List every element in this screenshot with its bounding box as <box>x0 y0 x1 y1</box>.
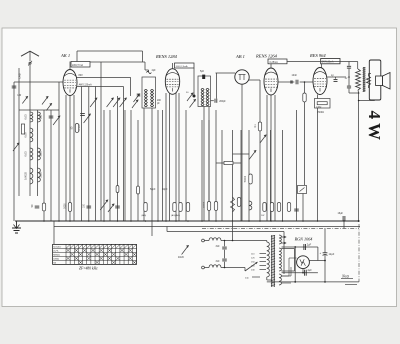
wire <box>294 247 296 282</box>
wire <box>208 107 210 222</box>
trimmer <box>100 200 108 210</box>
junction on bus <box>175 220 177 222</box>
resistor osc <box>75 124 78 133</box>
svg-text:2350: 2350 <box>40 172 43 178</box>
wire HV bottom <box>282 270 295 272</box>
variable capacitor arrow osc <box>84 114 91 123</box>
wire <box>13 82 15 221</box>
wire RENS1284 pin <box>165 93 167 221</box>
svg-text:200V,2,5mA: 200V,2,5mA <box>176 65 188 68</box>
coil L3 <box>30 148 33 160</box>
junction on bus <box>259 220 261 222</box>
wire <box>53 221 55 227</box>
junction on bus <box>165 220 167 222</box>
coil IF1 secondary b <box>151 98 154 106</box>
svg-text:2µF: 2µF <box>307 244 312 247</box>
junction <box>224 267 226 269</box>
junction <box>324 281 326 283</box>
junction <box>324 260 326 262</box>
svg-text:4pF: 4pF <box>152 69 157 72</box>
heater tap arrow b <box>282 242 286 244</box>
bottom rail <box>267 281 359 283</box>
wire <box>203 107 205 222</box>
svg-text:1600: 1600 <box>40 151 43 157</box>
wire rect fil b <box>282 282 292 284</box>
wire vertical <box>103 110 105 221</box>
capacitor blob <box>291 80 292 83</box>
table header hatch <box>66 244 137 248</box>
wire tube top <box>172 63 174 69</box>
capacitor 3nF <box>222 247 227 249</box>
wire <box>145 69 149 71</box>
capacitor 12uF electrolytic <box>323 253 328 256</box>
wire <box>368 86 370 89</box>
wire RENS1264 plate out <box>278 81 294 83</box>
arrow pot <box>260 135 266 143</box>
wire plate feed rail <box>90 61 145 63</box>
wire <box>18 68 20 110</box>
capacitor 200pF <box>215 99 217 103</box>
variable capacitor arrow <box>53 116 60 125</box>
svg-text:RENS 1264: RENS 1264 <box>255 54 278 59</box>
selector arm <box>245 262 258 271</box>
switch arrow <box>113 98 120 107</box>
wire RENS1284 pin <box>178 93 180 221</box>
wire vertical <box>117 96 119 221</box>
wire <box>270 64 272 68</box>
heater line <box>54 226 360 228</box>
wire RENS1264 pin <box>266 95 268 221</box>
wire <box>317 247 319 261</box>
wire RENS1284 pin <box>169 93 171 221</box>
junction on bus <box>270 220 272 222</box>
wire <box>130 77 132 96</box>
coil IF2 primary b <box>206 88 209 96</box>
junction on bus <box>117 220 119 222</box>
resistor <box>270 203 273 212</box>
svg-text:Zu/TL: Zu/TL <box>53 251 59 253</box>
wire <box>88 87 90 89</box>
wire <box>374 99 376 102</box>
wire vertical <box>124 110 126 221</box>
wire AK1 pin <box>65 95 67 221</box>
svg-text:RGN 1064: RGN 1064 <box>294 237 313 242</box>
resistor <box>186 203 189 212</box>
resistor padding <box>21 124 24 134</box>
junction on bus <box>282 220 284 222</box>
junction on bus <box>187 220 189 222</box>
tube AK1 envelope <box>63 70 77 96</box>
wire <box>282 275 290 277</box>
wire vertical <box>185 110 187 221</box>
coil mains choke top <box>209 238 221 241</box>
capacitor tuning <box>49 116 54 118</box>
wire <box>142 51 144 62</box>
coil PT primary <box>267 242 270 277</box>
capacitor Lz bottom <box>347 86 351 88</box>
junction blob <box>193 95 196 98</box>
capacitor 2uF <box>304 244 306 250</box>
resistor 5000 <box>68 203 71 212</box>
svg-text:12µF: 12µF <box>329 253 335 256</box>
junction on bus <box>58 220 60 222</box>
junction <box>232 240 234 242</box>
selector tap 110 <box>260 253 267 255</box>
resistor <box>42 203 45 211</box>
wire <box>259 131 261 221</box>
table X marks <box>66 249 136 264</box>
switch arrow antenna <box>13 143 19 151</box>
wire vertical <box>221 130 223 221</box>
junction <box>224 240 226 242</box>
coil L7 <box>38 168 41 182</box>
wire <box>324 255 326 282</box>
resistor grid leak <box>303 93 306 102</box>
junction on bus <box>215 220 217 222</box>
wire <box>232 221 234 241</box>
grid squiggle <box>147 71 152 73</box>
svg-text:50000: 50000 <box>245 175 247 182</box>
wire <box>18 110 20 196</box>
cathode box RES964 <box>315 99 331 109</box>
wire <box>321 64 323 68</box>
wire field coil down <box>358 93 360 221</box>
wire HV plate rail <box>282 246 318 248</box>
tube RES 964 envelope <box>313 68 327 95</box>
wire <box>224 262 226 268</box>
tube RGN1064 envelope <box>297 256 310 269</box>
svg-text:16-486: 16-486 <box>79 124 81 132</box>
svg-text:LAB: LAB <box>18 73 22 78</box>
svg-text:3nF: 3nF <box>216 245 221 248</box>
svg-text:40pF: 40pF <box>162 188 168 191</box>
wire <box>29 110 31 196</box>
wire vertical <box>296 110 298 221</box>
selector tap 240 <box>260 269 267 271</box>
capacitor 100pF <box>87 206 92 208</box>
svg-text:LW: LW <box>18 94 22 97</box>
svg-text:200pF: 200pF <box>219 101 226 103</box>
wire <box>221 240 267 242</box>
wire HV top <box>282 248 295 250</box>
wire <box>76 51 78 62</box>
wire AVC down <box>259 80 261 122</box>
svg-text:0,0025: 0,0025 <box>24 171 28 179</box>
svg-text:ZF=480 kHz: ZF=480 kHz <box>79 267 98 271</box>
wire plate RENS1284 down <box>193 68 195 95</box>
wire to speaker <box>369 73 372 75</box>
wire <box>343 221 345 228</box>
trimmer IF1a <box>133 94 139 102</box>
trimmer 40/20 <box>182 246 189 255</box>
coil IF1 secondary <box>144 98 147 106</box>
wire AK1 top <box>69 62 71 70</box>
wire <box>266 241 268 243</box>
ground bus <box>15 220 359 222</box>
ground symbol <box>12 221 21 233</box>
coil oval <box>116 186 119 193</box>
wire <box>166 227 168 232</box>
switch arrow W <box>42 97 48 105</box>
wire vertical <box>282 130 284 221</box>
switch arrow <box>90 98 97 107</box>
wire <box>224 250 226 258</box>
svg-text:RES 964: RES 964 <box>309 53 326 58</box>
capacitor <box>115 206 120 208</box>
switch arrow <box>120 98 127 107</box>
resistor oval <box>237 198 240 207</box>
capacitor 5pF <box>202 75 205 79</box>
wire B+ rail <box>287 61 358 63</box>
wire vertical <box>201 120 203 221</box>
junction on bus <box>69 220 71 222</box>
wire 80V <box>77 76 131 78</box>
junction <box>302 272 304 274</box>
switch arrow <box>107 98 114 107</box>
svg-text:LW(b): LW(b) <box>53 259 59 261</box>
wire <box>290 267 292 276</box>
wire vertical <box>208 120 210 221</box>
svg-text:140Ω: 140Ω <box>316 106 322 108</box>
junction <box>294 246 296 248</box>
coil oval <box>137 186 140 194</box>
wire <box>151 108 153 221</box>
wire RENS1264 pin <box>270 95 272 221</box>
anode box RENS1284 <box>175 63 195 68</box>
junction on bus <box>232 220 234 222</box>
wire AK1 pin <box>69 95 71 221</box>
coil choke <box>249 201 252 210</box>
wire AB1 cathode down <box>241 84 243 221</box>
capacitor Lz top <box>347 66 351 68</box>
coil IF2 secondary b <box>206 97 209 105</box>
junction on bus <box>248 220 250 222</box>
selector tap 220 <box>260 265 267 267</box>
svg-text:500: 500 <box>40 114 43 119</box>
svg-text:0,03: 0,03 <box>24 151 28 157</box>
coil L2 <box>30 128 33 142</box>
svg-text:10nF: 10nF <box>292 74 298 77</box>
wire vertical <box>232 130 234 221</box>
antenna fuse <box>28 61 32 66</box>
svg-text:5000: 5000 <box>65 203 67 209</box>
wire <box>283 232 285 275</box>
wire to RES964 grid <box>300 81 314 83</box>
coil IF2 secondary <box>201 97 204 105</box>
anode box AK1 <box>71 62 90 68</box>
wire vertical <box>109 110 111 221</box>
wire <box>144 62 146 70</box>
svg-text:5pF: 5pF <box>200 70 205 73</box>
wire <box>348 62 350 66</box>
wire fil <box>288 258 290 276</box>
wire <box>88 88 90 221</box>
wire <box>148 70 150 72</box>
junction bus end <box>358 220 360 222</box>
wire <box>266 277 268 280</box>
resistor <box>287 203 290 212</box>
wire antenna down <box>29 65 31 110</box>
wire to AB1 <box>216 72 236 74</box>
wire rect cathode <box>302 269 304 273</box>
wire antenna lead <box>29 51 31 61</box>
wire fil b <box>289 257 297 259</box>
meter box <box>298 186 307 194</box>
wire <box>244 268 246 272</box>
wire vertical <box>248 130 250 221</box>
svg-text:0,03: 0,03 <box>24 114 28 120</box>
wire vertical <box>162 110 164 221</box>
wire <box>304 102 306 185</box>
junction on bus <box>145 220 147 222</box>
resistor <box>263 203 266 212</box>
tube RENS 1284 envelope <box>165 69 179 95</box>
junction <box>358 92 360 94</box>
wire RENS1284 pin <box>175 93 177 221</box>
wire <box>368 74 370 77</box>
wire <box>95 88 97 221</box>
mains terminal top <box>202 239 205 242</box>
capacitor 50pF <box>35 206 40 208</box>
wire <box>317 108 319 221</box>
wire <box>95 87 97 89</box>
wire vertical <box>130 110 132 221</box>
svg-text:16µF: 16µF <box>338 212 344 215</box>
resistor 75000 <box>224 161 233 164</box>
svg-text:10000: 10000 <box>204 201 206 208</box>
svg-text:AK 1: AK 1 <box>60 53 70 58</box>
junction on bus <box>157 220 159 222</box>
anode box RES964 <box>321 59 340 64</box>
capacitor <box>294 209 299 211</box>
wire <box>151 221 153 236</box>
capacitor 4uF <box>305 270 307 276</box>
coil L1 <box>30 112 33 122</box>
svg-text:+: + <box>320 251 322 255</box>
power transformer core <box>271 235 275 287</box>
wire vertical <box>270 130 272 221</box>
wire <box>317 95 319 99</box>
wire vertical <box>157 110 159 221</box>
wire B+ out <box>309 260 325 262</box>
wire <box>349 92 359 94</box>
switching table <box>53 244 137 264</box>
trimmer IF2a <box>187 93 193 101</box>
wire <box>216 73 218 99</box>
resistor AG <box>144 203 147 212</box>
wire <box>204 240 209 242</box>
junction on bus <box>302 220 304 222</box>
wire <box>80 88 82 221</box>
wire <box>143 108 145 221</box>
wire <box>294 249 296 272</box>
wire <box>80 87 82 89</box>
wire <box>221 267 245 269</box>
resistor cathode bias <box>317 102 327 105</box>
coil L6 <box>38 148 41 160</box>
wire <box>211 100 214 102</box>
wire B+ up <box>324 228 326 252</box>
wire <box>224 241 226 247</box>
svg-text:AB 1: AB 1 <box>235 54 245 59</box>
wire rect fil <box>282 275 292 277</box>
junction on bus <box>43 220 45 222</box>
coil L4 <box>30 168 33 184</box>
junction <box>358 100 360 102</box>
Netz lines <box>341 279 357 285</box>
resistor 50000 <box>249 174 252 184</box>
coil IF2 primary <box>201 88 204 96</box>
resistor zigzag <box>231 197 235 212</box>
capacitor 16uF <box>343 216 345 221</box>
wire RENS1264 pin <box>274 95 276 221</box>
capacitor 3nF b <box>222 259 227 261</box>
wire <box>215 110 217 221</box>
svg-text:MW(b): MW(b) <box>53 255 60 257</box>
capacitor 10nF coupling <box>296 80 298 85</box>
svg-text:(AG)(AG): (AG)(AG) <box>171 214 180 217</box>
coil IF1 primary b <box>151 89 154 97</box>
wire HV plate rail b <box>282 272 318 274</box>
wire <box>302 194 304 222</box>
wire coil top rail <box>19 109 59 111</box>
coil PT HV <box>279 248 281 271</box>
coil mains choke bottom <box>209 265 221 268</box>
wire AK1 pin <box>73 95 75 221</box>
junction on bus <box>201 220 203 222</box>
junction on bus <box>317 220 319 222</box>
svg-text:220V,7mA: 220V,7mA <box>72 64 83 67</box>
resistor 10000 <box>207 202 210 211</box>
resistor <box>173 203 176 212</box>
wire grid AK1 <box>14 81 64 83</box>
wire <box>204 267 209 269</box>
wire <box>58 82 60 221</box>
junction on bus <box>103 220 105 222</box>
capacitor plate bypass <box>334 80 338 82</box>
wire <box>50 110 52 221</box>
wire <box>348 69 350 86</box>
wire <box>43 110 45 221</box>
svg-text:80V: 80V <box>79 74 84 77</box>
capacitor IF1 trim <box>137 94 141 96</box>
svg-text:40/20: 40/20 <box>178 257 184 259</box>
wire <box>267 279 272 281</box>
wire <box>123 87 125 222</box>
capacitor tuning osc <box>80 114 85 116</box>
trimmer IF2b <box>189 100 195 108</box>
potentiometer arrow <box>249 151 256 160</box>
heater line 2 <box>167 231 284 233</box>
speaker <box>369 60 390 100</box>
chassis dash-dot line <box>202 227 359 229</box>
wire <box>304 82 306 93</box>
svg-text:1500Ω: 1500Ω <box>317 112 324 114</box>
svg-text:(AG): (AG) <box>142 214 147 217</box>
svg-text:Netz: Netz <box>341 274 350 279</box>
wire AB1 diode out <box>249 79 261 81</box>
junction on bus <box>343 220 345 222</box>
wire top rail <box>77 50 143 52</box>
wire speaker return <box>359 100 375 102</box>
coil L5 <box>38 112 41 122</box>
junction <box>294 281 296 283</box>
junction on bus <box>130 220 132 222</box>
trimmer IF1b <box>132 100 138 108</box>
capacitor antenna series <box>12 86 17 88</box>
junction on bus <box>88 220 90 222</box>
coil IF1 primary <box>144 89 147 97</box>
